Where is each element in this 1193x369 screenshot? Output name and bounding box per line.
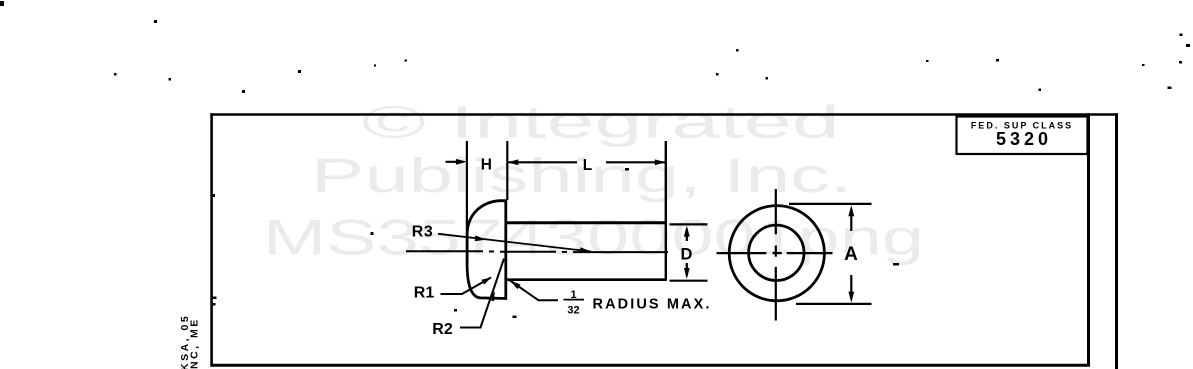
svg-text:L: L bbox=[583, 157, 592, 174]
border right inner bbox=[1087, 113, 1090, 366]
svg-text:© Integrated: © Integrated bbox=[362, 97, 840, 148]
D extension bottom bbox=[670, 280, 708, 282]
end view vertical centerline bbox=[775, 189, 777, 321]
border left bbox=[210, 113, 213, 366]
R1 label bbox=[414, 285, 435, 302]
R1 leader line bbox=[441, 278, 492, 295]
svg-text:R1: R1 bbox=[414, 285, 435, 302]
end view outer circle bbox=[729, 206, 824, 301]
radius max leader bbox=[510, 281, 558, 301]
shank top line bbox=[507, 221, 667, 224]
D extension top bbox=[670, 223, 708, 225]
R3 leader line bbox=[438, 234, 591, 253]
shank bottom line bbox=[506, 278, 667, 281]
fraction bar bbox=[564, 299, 585, 301]
fraction 1/32 bbox=[567, 289, 579, 317]
L dimension line bbox=[507, 159, 666, 165]
border top bbox=[210, 113, 1118, 116]
centerline side view bbox=[406, 250, 668, 253]
R2 label bbox=[432, 321, 453, 338]
H label bbox=[481, 156, 492, 173]
shank end and L extension line bbox=[665, 141, 667, 281]
svg-text:Publishing, Inc.: Publishing, Inc. bbox=[311, 150, 852, 203]
R2 leader line bbox=[460, 259, 504, 328]
svg-text:NC, ME: NC, ME bbox=[189, 317, 201, 369]
margin text column 1 bbox=[179, 314, 191, 369]
R3 label bbox=[412, 224, 433, 241]
H extension line right bbox=[506, 141, 508, 200]
border right outer bbox=[1115, 113, 1118, 369]
end view inner circle bbox=[749, 225, 804, 280]
svg-text:32: 32 bbox=[567, 305, 579, 317]
svg-text:H: H bbox=[481, 156, 492, 173]
rivet head outline bbox=[467, 201, 506, 299]
fed sup class box bbox=[957, 117, 1088, 155]
D label bbox=[681, 245, 693, 263]
svg-text:R3: R3 bbox=[412, 224, 433, 241]
A label bbox=[844, 244, 858, 265]
border bottom bbox=[210, 364, 1090, 367]
svg-text:A: A bbox=[844, 244, 858, 265]
A extension top bbox=[789, 203, 872, 205]
D dimension arrows bbox=[684, 226, 690, 279]
svg-text:5320: 5320 bbox=[996, 129, 1052, 149]
watermark line 2 bbox=[311, 150, 852, 203]
H dimension arrow bbox=[446, 159, 467, 165]
watermark line 3 bbox=[263, 210, 924, 266]
svg-text:RADIUS MAX.: RADIUS MAX. bbox=[593, 296, 712, 312]
fed sup class label bbox=[971, 120, 1073, 130]
watermark line 1 bbox=[362, 97, 840, 148]
radius max text bbox=[593, 296, 712, 312]
margin text column 2 bbox=[189, 317, 201, 369]
L label bbox=[583, 157, 592, 174]
A extension bottom bbox=[796, 303, 872, 305]
H extension line left bbox=[466, 141, 468, 231]
end view horizontal centerline bbox=[717, 252, 833, 254]
svg-text:R2: R2 bbox=[432, 321, 453, 338]
A dimension arrows bbox=[848, 205, 854, 302]
class number 5320 bbox=[996, 129, 1052, 149]
svg-text:D: D bbox=[681, 245, 693, 263]
